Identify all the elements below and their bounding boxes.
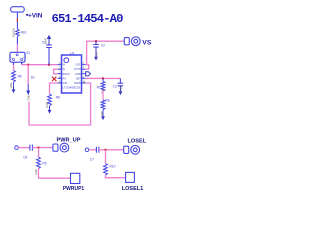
svg-text:4.7uF: 4.7uF: [119, 85, 123, 92]
turret J1 (+VIN input): [11, 7, 25, 12]
svg-text:GND: GND: [27, 94, 31, 100]
svg-text:U1: U1: [70, 51, 75, 55]
svg-text:SET: SET: [76, 77, 81, 80]
svg-text:R9: R9: [42, 161, 46, 165]
ground: [48, 106, 52, 114]
wire junction down: [105, 150, 107, 164]
svg-text:EN/UV: EN/UV: [63, 73, 71, 76]
svg-text:D1: D1: [31, 75, 35, 79]
wire: [99, 149, 124, 151]
svg-text:S1: S1: [26, 51, 30, 55]
svg-text:BLM18: BLM18: [12, 28, 16, 37]
port circle PWR_UP input: [15, 146, 19, 150]
ferrite bead FB1: [16, 29, 19, 37]
jumper S1: [10, 52, 25, 62]
svg-text:PG: PG: [63, 77, 67, 80]
wire turret to FB1: [16, 12, 18, 29]
pin names right: [74, 64, 81, 85]
wire D1 branch: [27, 65, 29, 84]
pin names left: [63, 64, 71, 85]
wire R5 to gnd: [13, 82, 15, 85]
node junction C2: [95, 40, 97, 42]
wire S1 left pin down: [13, 62, 15, 65]
svg-text:LOSEL1: LOSEL1: [122, 186, 143, 192]
svg-text:C3: C3: [113, 85, 117, 89]
svg-text:LOSEL: LOSEL: [128, 139, 147, 145]
wire OUTS bracket: [86, 65, 89, 70]
svg-text:GND: GND: [75, 73, 81, 76]
capacitor C6: [30, 145, 33, 151]
resistor R6: [48, 94, 52, 106]
svg-text:100k: 100k: [34, 168, 38, 174]
svg-text:C2: C2: [101, 43, 105, 47]
pin stubs left: [57, 65, 61, 83]
svg-text:PWRUP1: PWRUP1: [63, 186, 85, 192]
no-connect X on PG: [52, 77, 56, 81]
resistor R8: [101, 100, 105, 110]
power flag down D1: [27, 84, 29, 91]
wire R10 to port: [106, 175, 127, 178]
turret PWR_UP: [53, 144, 58, 151]
node junction D1 branch: [27, 64, 29, 66]
wire R9 to port: [39, 169, 71, 179]
port LOSEL1: [126, 172, 135, 182]
svg-text:R8: R8: [105, 98, 109, 102]
svg-text:PWR_UP: PWR_UP: [57, 137, 81, 143]
svg-text:IN: IN: [63, 64, 66, 67]
svg-text:C7: C7: [90, 158, 94, 162]
svg-text:R6: R6: [56, 96, 60, 100]
svg-text:OUT: OUT: [76, 64, 82, 67]
wire SET net: [86, 77, 121, 79]
node junction R10: [105, 149, 107, 151]
svg-text:VS: VS: [142, 40, 152, 47]
wire PGFB net long run: [29, 83, 91, 125]
svg-text:LT3045EDD: LT3045EDD: [62, 85, 81, 89]
port circle LOSEL input: [85, 148, 89, 152]
capacitor C3: [119, 78, 121, 83]
wire: [32, 147, 53, 149]
port PWRUP1: [71, 173, 80, 183]
wire: [89, 149, 96, 151]
wire left bracket IN-IN: [54, 69, 58, 74]
svg-text:100k: 100k: [100, 88, 104, 94]
op-amp U1 regulator box: [62, 55, 82, 93]
node junction R7: [102, 77, 104, 79]
port arrow GND pin: [86, 72, 91, 76]
wire: [18, 147, 29, 149]
wire ILIM to R6: [50, 83, 58, 94]
svg-text:651-1454-A0: 651-1454-A0: [52, 12, 124, 26]
ground: [12, 85, 16, 93]
svg-text:10uF: 10uF: [43, 38, 47, 44]
svg-text:R5: R5: [18, 75, 22, 79]
svg-text:+VIN: +VIN: [28, 12, 43, 19]
resistor R5: [12, 71, 16, 83]
pin stubs right: [82, 65, 86, 83]
svg-text:C6: C6: [23, 155, 27, 159]
svg-text:R10: R10: [110, 165, 116, 169]
resistor R7: [102, 78, 104, 81]
capacitor C1: [46, 45, 52, 48]
wire junction down: [38, 148, 40, 157]
svg-text:100k: 100k: [9, 82, 13, 88]
svg-text:FB1: FB1: [21, 31, 27, 35]
svg-text:IN: IN: [63, 68, 66, 71]
capacitor C2: [95, 41, 97, 44]
pin numbers left: [59, 63, 61, 83]
svg-text:10uF: 10uF: [95, 51, 99, 57]
wire S1 right pin to IN rail: [21, 62, 23, 64]
wire C1 branch: [48, 48, 50, 65]
resistor R9: [37, 157, 41, 169]
svg-text:OUTS: OUTS: [74, 68, 81, 71]
turret LOSEL: [124, 146, 129, 153]
turret VS: [124, 38, 129, 45]
svg-text:ILIM: ILIM: [63, 82, 68, 85]
node +VIN label: [26, 14, 28, 16]
node junction R9: [38, 147, 40, 149]
svg-text:PGFB: PGFB: [74, 82, 81, 85]
resistor R10: [104, 164, 108, 176]
capacitor C7: [96, 147, 99, 153]
node junction C1 branch: [48, 64, 50, 66]
wire FB1 to S1: [16, 37, 18, 45]
wire OUT to VS rail: [86, 41, 125, 64]
svg-text:100k: 100k: [45, 102, 49, 108]
pin numbers right: [83, 63, 86, 83]
